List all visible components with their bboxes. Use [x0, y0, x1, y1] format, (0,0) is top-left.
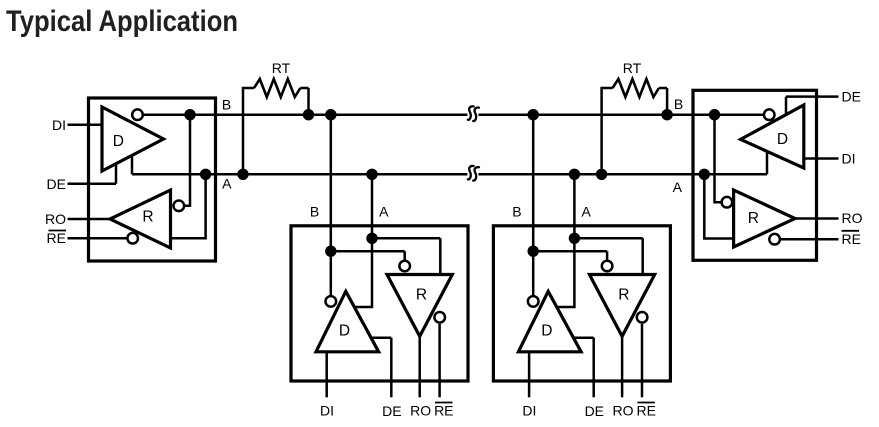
wire RE output (U4) [780, 238, 839, 241]
wire B to receiver bubble (U1) [184, 115, 190, 206]
wire bus B (right segment) [478, 113, 764, 116]
receiver R (U4) [734, 190, 795, 247]
svg-text:DI: DI [842, 151, 856, 167]
svg-text:B: B [310, 204, 319, 220]
svg-text:RO: RO [842, 210, 863, 226]
wire driver output to A (U1) [131, 156, 134, 174]
wire A to receiver input (U3) [574, 238, 642, 273]
wire RE input (U1) [68, 237, 128, 240]
wire RTright left lead [602, 88, 613, 174]
svg-text:A: A [222, 176, 232, 192]
wire B to receiver bubble (U2) [331, 251, 405, 260]
svg-text:R: R [142, 208, 153, 225]
transceiver U4 box [693, 90, 817, 260]
wire B to receiver bubble (U3) [533, 251, 607, 260]
svg-text:B: B [512, 204, 521, 220]
svg-text:A: A [379, 204, 389, 220]
svg-text:A: A [582, 204, 592, 220]
junction bus B drop (U3) [528, 109, 539, 120]
wire RTright right lead [659, 88, 667, 115]
wire A drop to driver (U2) [354, 174, 372, 307]
svg-text:A: A [673, 179, 683, 195]
svg-text:RT: RT [272, 60, 291, 76]
receiver enable bubble (U3) [637, 312, 648, 323]
wire bus A (right segment) [478, 173, 767, 176]
junction bus B drop (U2) [325, 109, 336, 120]
wire driver output to A (U4) [766, 152, 769, 175]
svg-text:D: D [339, 323, 350, 340]
wire DI input (U1) [68, 124, 103, 127]
receiver enable bubble (U1) [127, 233, 138, 244]
driver D (U3) [518, 291, 581, 352]
svg-text:D: D [113, 133, 124, 150]
driver inverting output bubble (U2) [326, 296, 337, 307]
driver inverting output bubble (U4, to B) [764, 109, 775, 120]
svg-text:D: D [541, 323, 552, 340]
wire DE input (U4) [786, 97, 839, 114]
resistor RT (right) [613, 79, 659, 97]
junction bus A drop (U2) [366, 169, 377, 180]
wire RO output (U1) [68, 218, 111, 221]
receiver R (U2) [387, 275, 452, 337]
wire RO stub (U2) [418, 336, 421, 397]
svg-text:RO: RO [45, 211, 66, 227]
junction RTleft on B [303, 109, 314, 120]
svg-text:D: D [777, 131, 788, 148]
overline RE (U4) [842, 230, 860, 232]
junction A internal (U2) [366, 233, 377, 244]
svg-text:DE: DE [585, 403, 604, 419]
wire RTleft right lead [300, 88, 308, 115]
wire RE stub (U3) [641, 324, 644, 397]
wire A to receiver input (U2) [372, 238, 440, 273]
svg-text:RT: RT [623, 60, 642, 76]
wire RTleft left lead [243, 88, 254, 174]
svg-text:R: R [618, 287, 629, 304]
wire DE stub (U3) [574, 338, 594, 398]
wire B drop (U2) [330, 115, 333, 296]
junction B inside U1 [184, 109, 195, 120]
svg-text:RO: RO [613, 403, 634, 419]
wire DI stub (U2) [325, 352, 328, 398]
transceiver U1 box [89, 98, 216, 261]
svg-text:RE: RE [842, 231, 861, 247]
bus B break symbol [468, 106, 479, 121]
receiver R (U1) [110, 190, 171, 248]
svg-text:B: B [674, 96, 683, 112]
wire RE stub (U2) [438, 324, 441, 397]
wire B to receiver bubble (U4) [715, 115, 722, 203]
driver D (U1) [102, 107, 164, 171]
wire bus B (left segment) [144, 113, 467, 116]
wire B drop (U3) [532, 115, 535, 296]
receiver inverting input bubble (U2) [399, 261, 410, 272]
receiver inverting input bubble (U1, from B) [174, 201, 185, 212]
junction A internal (U3) [569, 233, 580, 244]
driver D (U2) [316, 291, 379, 352]
junction B internal (U3) [528, 246, 539, 257]
driver inverting output bubble (U3) [528, 296, 539, 307]
wire DE input (U1) [68, 163, 117, 184]
junction RTleft on A [237, 169, 248, 180]
receiver enable bubble (U4) [769, 234, 780, 245]
wire RO stub (U3) [621, 336, 624, 397]
junction RTright on A [596, 169, 607, 180]
driver inverting output bubble (U1, to B) [132, 109, 143, 120]
svg-text:RE: RE [47, 230, 66, 246]
transceiver U2 box [291, 226, 468, 381]
svg-text:RE: RE [636, 403, 655, 419]
receiver enable bubble (U2) [434, 312, 445, 323]
svg-text:R: R [416, 287, 427, 304]
transceiver U3 box [493, 226, 670, 381]
wire DE stub (U2) [371, 338, 391, 398]
driver D (U4) [741, 105, 804, 168]
wire A to receiver input (U1) [171, 174, 206, 238]
svg-text:DE: DE [47, 176, 66, 192]
junction A inside U1 [200, 169, 211, 180]
wire RO output (U4) [795, 217, 839, 220]
overline RE (U1) [49, 230, 67, 232]
bus A break symbol [468, 166, 479, 181]
junction B inside U4 [709, 109, 720, 120]
svg-text:RO: RO [410, 403, 431, 419]
svg-text:DI: DI [522, 403, 536, 419]
junction A inside U4 [699, 169, 710, 180]
svg-text:DI: DI [52, 117, 66, 133]
wire DI stub (U3) [528, 352, 531, 398]
resistor RT (left) [254, 79, 300, 97]
svg-text:RE: RE [434, 403, 453, 419]
svg-text:R: R [748, 210, 759, 227]
receiver inverting input bubble (U4) [722, 197, 733, 208]
receiver inverting input bubble (U3) [602, 261, 613, 272]
wire A drop to driver (U3) [557, 174, 575, 307]
junction RTright on B [661, 109, 672, 120]
svg-text:B: B [222, 97, 231, 113]
receiver R (U3) [589, 275, 654, 337]
wire A to receiver input (U4) [704, 174, 733, 238]
svg-text:DI: DI [320, 403, 334, 419]
wire bus A (left segment) [132, 173, 467, 176]
junction bus A drop (U3) [569, 169, 580, 180]
overline RE (U3) [637, 402, 655, 404]
junction B internal (U2) [325, 246, 336, 257]
svg-text:DE: DE [382, 403, 401, 419]
svg-text:Typical Application: Typical Application [6, 5, 238, 38]
wire DI input (U4) [804, 157, 839, 160]
overline RE (U2) [435, 402, 453, 404]
svg-text:DE: DE [842, 89, 861, 105]
